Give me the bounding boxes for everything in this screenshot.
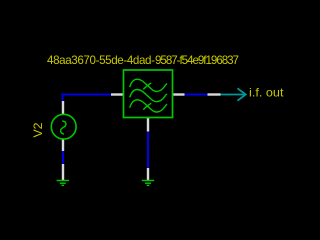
svg-text:V2: V2: [31, 122, 45, 137]
svg-text:48aa3670-55de-4dad-9587-f54e9f: 48aa3670-55de-4dad-9587-f54e9f196837: [47, 54, 239, 67]
svg-text:i.f. out: i.f. out: [249, 87, 284, 100]
